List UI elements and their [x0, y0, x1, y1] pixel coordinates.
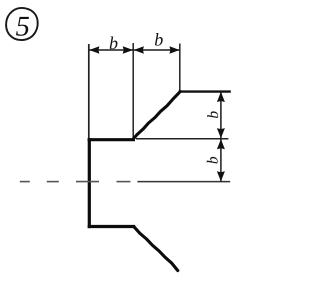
arrowhead right, tip at right extension	[169, 46, 179, 54]
profile: left vertical edge	[88, 138, 91, 228]
svg-text:b: b	[204, 156, 221, 164]
centerline dash 1	[20, 181, 30, 183]
top dimension line	[89, 49, 179, 51]
profile: upper diagonal	[133, 92, 180, 139]
svg-text:5: 5	[16, 11, 30, 42]
arrowhead up, tip at top edge	[217, 92, 225, 102]
arrowhead left, tip at left extension	[89, 46, 99, 54]
svg-text:b: b	[109, 33, 118, 53]
profile: lower diagonal	[134, 227, 178, 271]
extension line middle-right horizontal (y=138.7)	[136, 138, 228, 140]
extension line left (x=89)	[88, 44, 90, 138]
extension line right (x=180)	[179, 44, 181, 92]
profile: top horizontal edge	[179, 90, 231, 92]
right dimension line	[220, 92, 222, 182]
arrowhead up, tip at middle extension (lower)	[217, 139, 225, 149]
centerline dash 4	[117, 181, 131, 183]
arrowhead down, tip at middle extension (upper)	[217, 128, 225, 138]
figure number balloon: circle	[6, 8, 38, 40]
profile: upper flange top edge	[88, 138, 135, 141]
arrowhead left of second span, tip at middle extension	[134, 46, 144, 54]
centerline solid segment / bottom extension	[137, 181, 230, 183]
arrowhead right of first span, tip at middle extension	[123, 46, 133, 54]
svg-text:b: b	[154, 30, 163, 50]
centerline dash 2	[47, 181, 59, 183]
centerline dash 3	[76, 181, 99, 183]
svg-text:b: b	[205, 111, 222, 119]
extension line middle (x=133)	[132, 43, 134, 138]
arrowhead down, tip at centerline	[217, 171, 225, 181]
profile: lower flange bottom edge	[88, 225, 136, 228]
